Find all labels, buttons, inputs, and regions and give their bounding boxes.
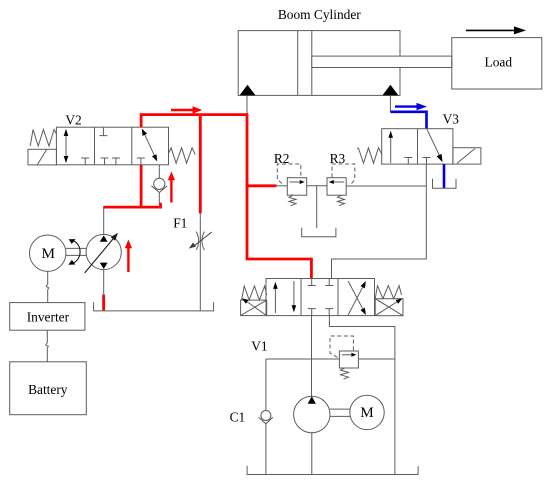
V3 left cell blocked port T (404, 158, 412, 165)
V1 right solenoid (375, 299, 403, 316)
tank under R2 R3 (302, 228, 336, 237)
pump P1 circle (variable) (86, 234, 121, 269)
svg-text:C1: C1 (230, 409, 246, 424)
wire red main: V2 top to cylinder to V1 (141, 115, 311, 279)
tank right (247, 466, 418, 475)
svg-text:R2: R2 (274, 151, 290, 166)
V2 center cell bottom blocked ports (101, 158, 120, 165)
relief pilot (dashed) (330, 336, 353, 358)
wire pump bottom (103, 270, 105, 296)
pump P2 circle (294, 396, 330, 432)
svg-text:V2: V2 (65, 113, 81, 128)
svg-text:V3: V3 (443, 111, 460, 126)
R3 spring (338, 195, 345, 206)
V3 left cell arrow (390, 136, 392, 164)
wire relief outlet (358, 358, 395, 360)
relief valve R2 (287, 178, 306, 196)
wire to R2 inlet (275, 185, 287, 187)
wire red branch to R2 (246, 184, 277, 187)
check valve under V2 (158, 165, 160, 179)
shaft pump P2 to motor M2 (330, 408, 350, 410)
V2 right cell diagonal arrow (143, 130, 157, 159)
wire V3 bottom port down (425, 164, 427, 186)
motor M2 circle (350, 395, 384, 429)
battery box (10, 362, 87, 415)
V2 right spring (169, 148, 196, 163)
blue flow arrow (395, 105, 417, 107)
wire inverter to battery (46, 330, 49, 362)
wire R3 to V3/V1 net (332, 186, 427, 279)
R2 pilot line (dashed) (277, 164, 301, 184)
wire V3 to tank (blue) (443, 164, 446, 188)
V1 right spring (375, 286, 401, 299)
V1 left cell arrows (274, 286, 276, 313)
wire F1 line (199, 213, 201, 310)
V1 center cell blocked ports (308, 279, 334, 286)
shaft M1 to pump (66, 247, 86, 249)
red flow arrow top (171, 109, 194, 111)
V3 solenoid (453, 148, 481, 164)
svg-text:M: M (360, 404, 374, 421)
cylinder left port stem (246, 95, 248, 114)
wire red under V2 (140, 165, 143, 209)
inverter box (10, 303, 85, 331)
piston (297, 31, 299, 96)
R2 spring (289, 195, 296, 206)
R3 pilot line (dashed) (332, 164, 355, 184)
check valve C1 (265, 359, 267, 411)
red flow arrow at check valve (170, 180, 172, 203)
V2 left cell blocked port T (81, 158, 89, 165)
wire M1 to inverter (46, 271, 49, 302)
V2 center cell top blocked port (99, 127, 107, 135)
svg-text:Battery: Battery (28, 382, 68, 397)
relief valve (339, 351, 358, 368)
boom cylinder barrel (238, 31, 400, 96)
V2 right cell blocked port T (137, 158, 145, 165)
V1 right cell crossed arrows (348, 287, 363, 315)
svg-text:Boom Cylinder: Boom Cylinder (278, 7, 361, 22)
tank left (94, 302, 214, 311)
red flow arrow at pump (127, 247, 129, 272)
V2 left cell double arrow (65, 134, 67, 158)
cylinder left port triangle (240, 85, 256, 96)
load motion arrow (466, 29, 515, 31)
tank under V3 (433, 179, 457, 189)
V3 right cell diagonal arrow (427, 129, 441, 158)
V2 left spring (30, 130, 56, 147)
V1 left solenoid (241, 300, 267, 316)
relief valve R3 (327, 178, 346, 196)
wire red F1 branch (199, 115, 202, 214)
rotation arrow (72, 240, 81, 263)
valve V3 body (382, 129, 453, 164)
load box (452, 38, 542, 89)
valve V1 body (266, 279, 375, 316)
svg-text:Load: Load (485, 55, 513, 70)
wire junction to center tank (316, 186, 318, 228)
wire V1 T port to tank (329, 316, 395, 475)
V2 solenoid (28, 149, 57, 165)
wire red pump suction (102, 295, 105, 311)
relief spring (341, 368, 349, 379)
cylinder right port triangle (382, 85, 398, 96)
throttle F1 (196, 232, 198, 251)
svg-text:F1: F1 (173, 215, 187, 230)
svg-text:V1: V1 (251, 338, 267, 353)
wire relief inlet (266, 358, 340, 360)
cylinder right port stem (389, 95, 391, 111)
wire pump P2 to tank (311, 433, 313, 475)
V3 left spring (357, 148, 382, 163)
svg-text:Inverter: Inverter (27, 310, 70, 325)
svg-text:M: M (41, 245, 55, 262)
V3 right cell blocked port T (423, 158, 431, 165)
pump variable arrow (85, 238, 114, 273)
V1 left spring (242, 286, 267, 300)
wire R2 to R3 (307, 185, 327, 187)
wire pump top (103, 207, 105, 234)
wire V1 P port to pump (311, 316, 313, 397)
wire blue cylinder to V3 (390, 112, 426, 129)
wire red pump to check valve (103, 203, 160, 207)
motor M1 circle (30, 235, 66, 271)
piston rod (312, 56, 452, 67)
valve V2 body (56, 127, 168, 165)
